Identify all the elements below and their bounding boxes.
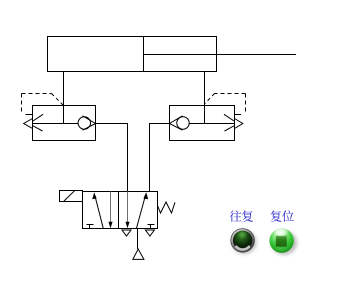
V2 throttle arrow barb lower	[225, 126, 235, 131]
button indicator B2 bottom inner reflection	[274, 247, 290, 251]
label 往复	[230, 210, 253, 221]
pipe cylinder left port to valve V1	[63, 72, 65, 124]
V2 flow line	[189, 123, 235, 125]
solenoid actuator box	[60, 191, 83, 202]
supply source triangle	[133, 249, 144, 259]
button indicator B1 bottom reflection crescent	[236, 247, 249, 250]
V1 throttle arrow barb upper	[33, 114, 43, 121]
button indicator B1 lens	[234, 231, 252, 249]
cylinder piston	[143, 37, 145, 72]
V1 adjuster dashed diagonal	[52, 94, 64, 106]
right position down flow arrow line	[127, 192, 129, 224]
V1 adjuster dashed box	[22, 94, 52, 114]
V2 adjuster dashed box bottom dash	[234, 114, 241, 116]
V1 check valve ball	[78, 117, 90, 129]
pipe V1 outlet to directional valve port A	[96, 124, 128, 193]
V1 check valve seat	[83, 116, 96, 130]
directional valve position divider	[118, 192, 120, 229]
button indicator B1 ring inner edge	[233, 231, 252, 250]
button indicator B2 sphere	[269, 228, 293, 252]
exhaust triangle R1	[122, 230, 131, 236]
flow control valve V1 body	[33, 106, 96, 141]
cylinder rod	[144, 54, 297, 56]
solenoid diagonal	[64, 191, 75, 201]
V2 check valve ball	[177, 117, 189, 129]
button indicator B2 (green) shadow	[271, 231, 297, 255]
V2 adjuster dashed box	[215, 94, 246, 114]
V2 adjuster dashed diagonal	[205, 94, 215, 104]
V1 flow line	[33, 123, 79, 125]
button indicator B2 center square	[276, 236, 287, 247]
left position diagonal flow arrow	[95, 196, 103, 229]
button indicator B1 (dark) shadow	[232, 230, 257, 254]
right position blocked port T	[148, 225, 155, 229]
return spring	[158, 202, 176, 213]
directional valve U1 body	[83, 192, 158, 229]
left position diagonal arrowhead (up)	[92, 192, 96, 199]
pipe V2 outlet to directional valve port B	[150, 124, 170, 193]
button indicator B1 top highlight	[239, 232, 246, 237]
exhaust triangle R2	[145, 230, 154, 236]
V2 throttle arrow barb upper	[224, 114, 234, 121]
flow control valve V2 body	[170, 106, 235, 141]
label 复位	[270, 210, 293, 221]
button indicator B2 top gloss	[274, 228, 287, 235]
V2 exhaust arrowhead	[235, 119, 243, 129]
V1 exhaust arrowhead	[24, 119, 33, 129]
button indicator B1 outer ring	[231, 229, 255, 253]
cylinder body	[48, 37, 217, 72]
supply line P	[137, 229, 139, 250]
left position down arrowhead	[108, 222, 112, 229]
left position blocked port T	[87, 225, 94, 229]
right position down arrowhead	[125, 222, 129, 229]
V1 adjuster dashed box bottom dash	[26, 114, 33, 116]
right position diagonal arrowhead (up)	[143, 192, 148, 199]
V2 check valve seat	[170, 116, 183, 130]
pipe cylinder right port to valve V2	[204, 72, 206, 124]
right position diagonal flow arrow	[136, 196, 145, 229]
left position down flow arrow line	[110, 192, 112, 224]
V1 throttle arrow barb lower	[33, 126, 43, 131]
